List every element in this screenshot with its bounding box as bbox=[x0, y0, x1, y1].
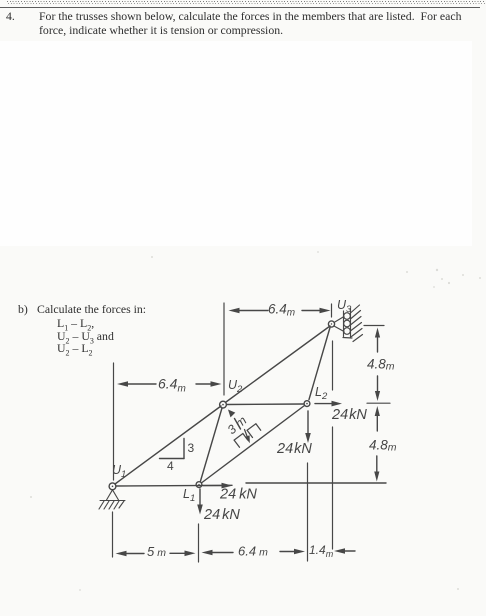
svg-text:24kN: 24kN bbox=[276, 441, 312, 457]
3m perpendicular leader arrow to U2 bbox=[228, 410, 241, 430]
svg-text:5m: 5m bbox=[147, 544, 166, 559]
perforation dotted line bbox=[7, 1, 486, 2]
dimension 4.8m lower: up arrow bbox=[375, 406, 380, 431]
dimension 5m: right arrow bbox=[170, 551, 196, 557]
problem number 4. bbox=[6, 9, 15, 23]
node L1 bbox=[196, 482, 202, 488]
svg-text:L2: L2 bbox=[315, 385, 328, 402]
dimension 4.8m lower: down arrow bbox=[374, 456, 379, 482]
pin support at U1 bbox=[99, 490, 125, 509]
part b) text block bbox=[18, 302, 28, 316]
dimension 6.4m mid: left arrow bbox=[117, 381, 156, 387]
slope triangle 3-4 on member U1-U2 bbox=[160, 439, 185, 459]
node L2 bbox=[304, 401, 310, 407]
member U2-U3 bbox=[226, 326, 330, 402]
bottom dimension extension below U3 (broken by labels) bbox=[332, 341, 334, 549]
dimension tick at U3 level (right 4.8m top) bbox=[364, 325, 384, 327]
dimension tick at U3 (top) bbox=[331, 304, 333, 317]
node U3 bbox=[328, 321, 334, 327]
svg-text:L1: L1 bbox=[183, 487, 195, 504]
member U1-U2 bbox=[115, 406, 221, 484]
bottom dimension extension below U1 bbox=[112, 512, 114, 557]
dimension 6.4m bottom: right arrow bbox=[280, 549, 305, 555]
dimension 5m: left arrow bbox=[116, 551, 145, 557]
dimension 1.4m: right-side arrow bbox=[334, 548, 355, 554]
svg-text:1.4m: 1.4m bbox=[309, 543, 334, 559]
load arrow 24kN right at L2 bbox=[315, 401, 342, 407]
svg-text:6.4m: 6.4m bbox=[268, 302, 295, 319]
load arrow 24kN right at L1 bbox=[203, 483, 233, 489]
dimension 6.4m mid: right arrow bbox=[196, 381, 222, 387]
member U1-L1 bottom chord (extended right as reference line) bbox=[116, 483, 386, 486]
member L1-U2 bbox=[201, 408, 223, 481]
svg-text:U1: U1 bbox=[112, 463, 126, 480]
dimension 6.4m top: left arrow bbox=[229, 308, 269, 314]
svg-text:6.4m: 6.4m bbox=[238, 544, 268, 559]
solid rule under perforation bbox=[0, 7, 480, 8]
svg-text:U3: U3 bbox=[337, 298, 352, 315]
dimension 6.4m bottom: left arrow bbox=[202, 550, 234, 556]
scan noise specks bbox=[30, 251, 481, 591]
svg-text:U2: U2 bbox=[228, 378, 243, 395]
svg-text:4.8m: 4.8m bbox=[369, 438, 397, 454]
roller support at U3 (against wall) bbox=[334, 305, 363, 342]
svg-text:6.4m: 6.4m bbox=[158, 376, 186, 395]
member U2-L2 bbox=[227, 403, 304, 406]
dimension 6.4m top: right arrow bbox=[302, 308, 331, 314]
svg-text:24kN: 24kN bbox=[219, 487, 257, 503]
svg-text:24kN: 24kN bbox=[203, 507, 240, 523]
white top section of scanned page bbox=[0, 41, 472, 246]
load arrow 24kN down at L2 bbox=[305, 411, 311, 443]
svg-text:4.8m: 4.8m bbox=[367, 357, 395, 373]
node U1 bbox=[109, 483, 116, 490]
dimension tick at L2 level (right) bbox=[367, 402, 390, 404]
perpendicular right-angle marks on L1-L2 bbox=[234, 424, 261, 448]
svg-text:4: 4 bbox=[167, 459, 174, 473]
problem statement paragraph bbox=[39, 9, 479, 38]
svg-text:24kN: 24kN bbox=[331, 407, 367, 423]
load arrow 24kN down at L1 bbox=[197, 489, 203, 515]
dimension extension line above U1 (x=113.5) bbox=[113, 363, 115, 480]
member L2-U3 bbox=[309, 328, 330, 400]
dimension extension line at U2 (x=224) bbox=[223, 303, 225, 395]
node U2 bbox=[220, 401, 227, 408]
svg-text:3: 3 bbox=[188, 441, 195, 455]
bottom dimension extension below L1 bbox=[198, 524, 200, 562]
dimension 4.8m upper: down arrow bbox=[375, 376, 380, 401]
member L1-L2 bbox=[202, 406, 305, 483]
dimension 4.8m upper: up arrow bbox=[375, 328, 380, 353]
bottom dimension extension below L2 bbox=[307, 463, 309, 561]
